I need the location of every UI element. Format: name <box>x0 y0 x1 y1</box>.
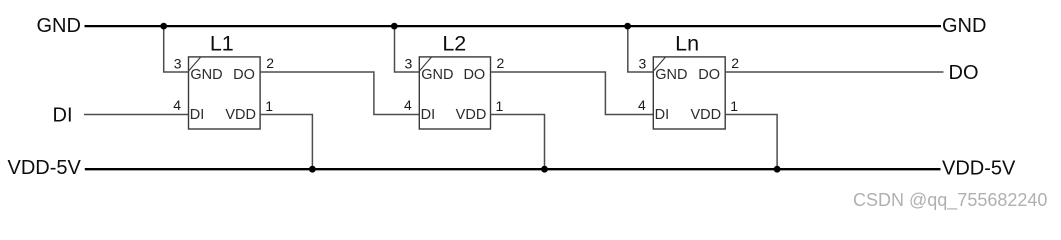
wire Ln DO output <box>725 71 943 73</box>
junction on GND rail at L2 <box>391 23 398 30</box>
svg-text:L1: L1 <box>210 32 234 56</box>
svg-text:1: 1 <box>730 98 738 114</box>
svg-text:DI: DI <box>421 107 436 123</box>
wire L1 VDD to rail <box>260 115 312 170</box>
svg-text:DI: DI <box>53 104 73 126</box>
svg-text:VDD-5V: VDD-5V <box>942 158 1016 180</box>
svg-text:3: 3 <box>405 56 413 72</box>
wire Ln VDD to rail <box>725 115 777 170</box>
IC Ln body <box>653 57 725 129</box>
pin-1 corner chamfer L1 <box>189 57 201 71</box>
svg-text:CSDN @qq_755682240: CSDN @qq_755682240 <box>853 190 1047 211</box>
svg-text:3: 3 <box>639 56 647 72</box>
wire L2 DO to Ln DI <box>491 72 654 115</box>
svg-text:DO: DO <box>949 62 979 84</box>
junction on VDD rail at L1 <box>309 166 316 173</box>
junction on VDD rail at L2 <box>541 166 548 173</box>
svg-text:DO: DO <box>463 67 485 83</box>
VDD-5V rail wire <box>85 168 941 170</box>
svg-text:GND: GND <box>655 67 687 83</box>
pin-1 corner chamfer L2 <box>420 57 432 71</box>
svg-text:DI: DI <box>655 107 670 123</box>
wire L2 GND drop from rail <box>395 26 420 72</box>
svg-text:4: 4 <box>173 97 181 113</box>
IC L2 body <box>419 57 490 129</box>
pin-1 corner chamfer Ln <box>654 57 666 71</box>
svg-text:Ln: Ln <box>675 32 699 56</box>
svg-text:VDD: VDD <box>456 107 487 123</box>
svg-text:4: 4 <box>638 97 646 113</box>
svg-text:VDD: VDD <box>225 107 256 123</box>
wire DI input lead <box>84 114 189 116</box>
IC L1 body <box>189 57 261 129</box>
wire L1 DO to L2 DI <box>260 72 419 115</box>
svg-text:GND: GND <box>37 15 81 37</box>
svg-text:2: 2 <box>731 55 739 71</box>
svg-text:4: 4 <box>404 97 412 113</box>
svg-text:VDD: VDD <box>690 107 721 123</box>
svg-text:GND: GND <box>942 15 986 37</box>
wire L1 GND drop from rail <box>164 26 189 72</box>
svg-text:1: 1 <box>265 98 273 114</box>
svg-text:1: 1 <box>496 98 504 114</box>
svg-text:GND: GND <box>421 67 453 83</box>
wire Ln GND drop from rail <box>628 26 654 72</box>
svg-text:DI: DI <box>190 107 205 123</box>
wire L2 VDD to rail <box>491 115 545 170</box>
svg-text:2: 2 <box>266 55 274 71</box>
svg-text:DO: DO <box>698 67 720 83</box>
junction on GND rail at L1 <box>160 23 167 30</box>
svg-text:3: 3 <box>174 56 182 72</box>
junction on VDD rail at Ln <box>774 166 781 173</box>
svg-text:VDD-5V: VDD-5V <box>8 157 82 179</box>
junction on GND rail at Ln <box>624 23 631 30</box>
svg-text:GND: GND <box>190 67 222 83</box>
svg-text:L2: L2 <box>442 32 466 56</box>
svg-text:2: 2 <box>497 55 505 71</box>
GND rail wire <box>85 25 942 27</box>
svg-text:DO: DO <box>233 67 255 83</box>
